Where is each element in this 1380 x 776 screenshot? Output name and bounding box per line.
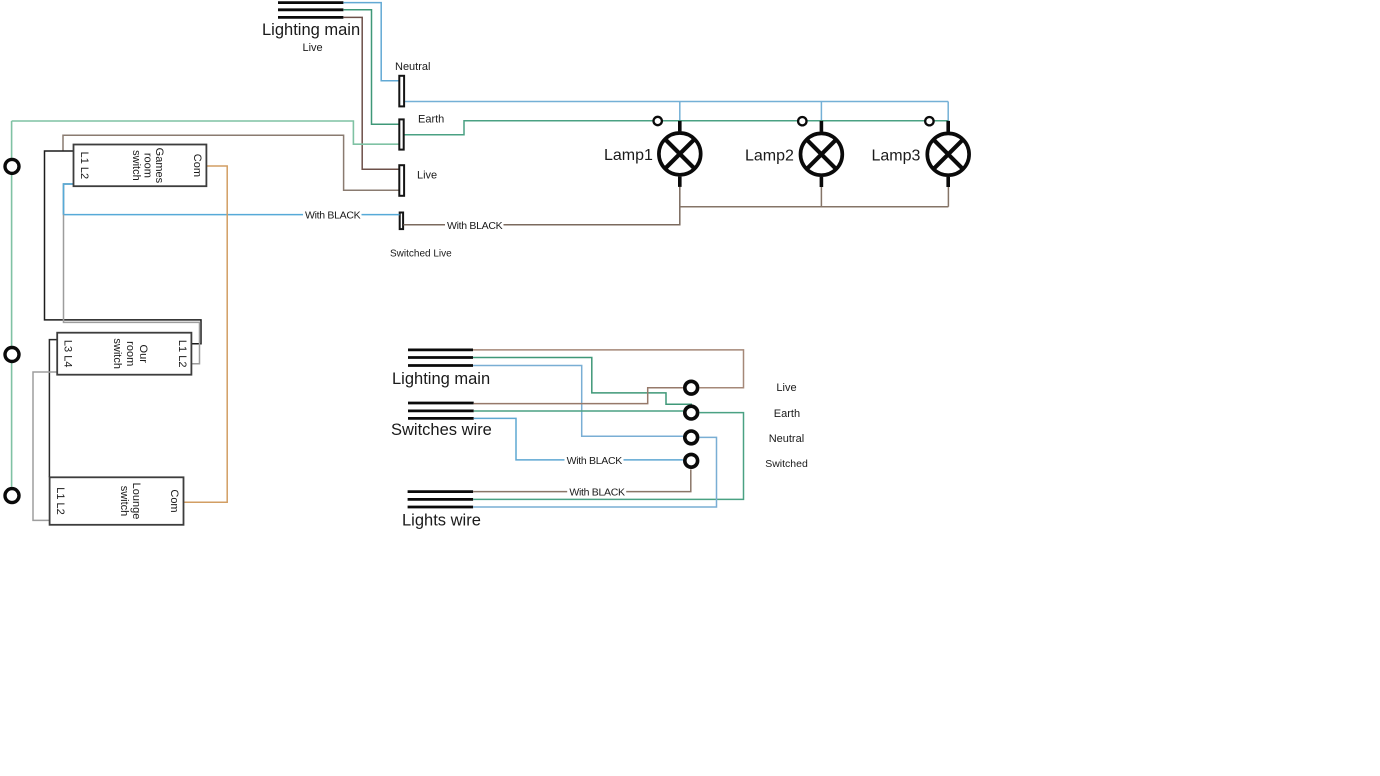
switch box Lounge switch <box>50 477 184 525</box>
wire switched-live brown: terminal to Lamp1 <box>404 187 680 225</box>
switch box Our room switch <box>57 333 191 375</box>
svg-text:Games: Games <box>153 148 165 184</box>
svg-text:Earth: Earth <box>418 114 444 126</box>
wire neutral run: Neutral terminal to lamps <box>405 101 949 103</box>
svg-text:Lamp2: Lamp2 <box>745 148 794 165</box>
terminal bar Switched Live <box>400 213 403 230</box>
svg-text:Lights wire: Lights wire <box>402 512 481 530</box>
lamp L2 earth ring <box>798 117 806 125</box>
svg-text:Com: Com <box>191 154 203 177</box>
svg-text:L3 L4: L3 L4 <box>62 340 74 368</box>
wire orange: Games room Com to Lounge Com <box>184 166 228 502</box>
wire blue overlay on L2 junction <box>64 184 74 215</box>
svg-text:With BLACK: With BLACK <box>305 210 361 222</box>
svg-text:Neutral: Neutral <box>769 433 804 445</box>
wire blue: lighting main middle to Neutral node <box>473 366 683 437</box>
wire green: lighting main middle to Earth node <box>473 358 692 405</box>
wire earth run: Earth terminal to lamps <box>404 121 948 135</box>
wire live brown long: Games room switch junction to Live terminal <box>63 135 399 190</box>
earth sleeve ring 2 <box>5 348 19 362</box>
wire brown: lighting main middle to Live node <box>473 350 744 388</box>
terminal bar Live <box>399 165 404 196</box>
svg-text:L1 L2: L1 L2 <box>54 487 66 515</box>
wire earth green: top cable to Earth terminal <box>343 10 398 124</box>
svg-text:Switches wire: Switches wire <box>391 421 492 439</box>
junction node Neutral <box>685 431 698 444</box>
svg-text:Switched Live: Switched Live <box>390 249 452 260</box>
cable Switches wire : three thick conductors <box>408 403 474 418</box>
svg-text:switch: switch <box>130 150 142 181</box>
wire blue: switches wire to Switched node <box>474 418 683 460</box>
svg-text:L1 L2: L1 L2 <box>78 152 90 180</box>
earth sleeve ring 1 <box>5 159 19 173</box>
svg-text:Lamp3: Lamp3 <box>872 148 921 165</box>
wire switched-live blue: Games room switch L2 to Switched Live terminal <box>64 184 400 215</box>
svg-text:room: room <box>124 341 136 366</box>
svg-text:Earth: Earth <box>774 408 800 420</box>
svg-text:Switched: Switched <box>765 458 808 470</box>
wire blue: lights wire to Neutral node <box>473 437 716 507</box>
junction node Earth <box>685 406 698 419</box>
switch box Games room switch <box>74 145 207 187</box>
wire neutral drop lamp1 <box>679 102 681 122</box>
lamp Lamp1 <box>659 121 701 187</box>
svg-text:switch: switch <box>118 486 130 517</box>
wire grey: Games room L2 to Our room L2 <box>64 184 200 364</box>
svg-text:Lamp1: Lamp1 <box>604 147 653 164</box>
terminal bar Neutral <box>399 76 404 107</box>
label Lounge switch (rotated) <box>118 483 142 520</box>
lamp Lamp2 <box>801 121 843 187</box>
svg-text:Live: Live <box>776 382 796 394</box>
wire neutral drop lamp3 <box>947 102 949 122</box>
terminal bar Earth <box>399 119 403 149</box>
svg-text:Live: Live <box>417 170 437 182</box>
junction node Live <box>685 381 698 394</box>
lamp Lamp3 <box>927 121 969 187</box>
lamp L3 earth ring <box>925 117 933 125</box>
wire dark: Our room L3 to Lounge L1 <box>49 340 57 478</box>
wire neutral blue: top cable to Neutral terminal <box>343 3 398 81</box>
wire earth green long: left earth riser to Earth terminal <box>12 121 399 144</box>
svg-text:L1 L2: L1 L2 <box>176 340 188 368</box>
svg-text:Lounge: Lounge <box>130 483 142 520</box>
wire neutral drop lamp2 <box>820 102 822 122</box>
earth sleeve ring 3 <box>5 489 19 503</box>
svg-text:Lighting main: Lighting main <box>262 21 360 39</box>
svg-text:With BLACK: With BLACK <box>447 220 503 232</box>
svg-text:With BLACK: With BLACK <box>569 487 625 499</box>
wire brown: lights wire to Switched node <box>473 469 691 491</box>
wire black: Games room L1 to Our room L1 <box>45 151 202 344</box>
cable Lights wire : three thick conductors <box>408 492 474 507</box>
svg-text:switch: switch <box>111 338 123 369</box>
svg-text:Neutral: Neutral <box>395 61 430 73</box>
lamp L1 earth ring <box>654 117 662 125</box>
svg-text:room: room <box>142 153 154 178</box>
svg-text:Live: Live <box>303 42 323 54</box>
wire live brown: top cable to Live terminal <box>343 17 398 169</box>
wire brown: switches wire to Live node <box>474 388 683 404</box>
cable Lighting main (middle) : three thick conductors <box>408 350 473 366</box>
wire grey: Our room L4 to Lounge L2 <box>33 372 57 520</box>
label Games room switch (rotated) <box>130 148 165 184</box>
svg-text:Lighting main: Lighting main <box>392 370 490 388</box>
label Our room switch (rotated) <box>111 338 149 369</box>
cable Lighting main (top) : three thick conductors <box>278 3 343 18</box>
junction node Switched <box>685 454 698 467</box>
svg-text:Our: Our <box>137 345 149 364</box>
wire green: lights wire to Earth node <box>473 413 743 500</box>
svg-text:With BLACK: With BLACK <box>567 455 623 467</box>
wire earth green riser (left) <box>11 121 13 487</box>
svg-text:Com: Com <box>168 489 180 512</box>
wire lamp interconnect brown <box>680 187 949 207</box>
wire green: switches wire to Earth node <box>474 410 684 412</box>
